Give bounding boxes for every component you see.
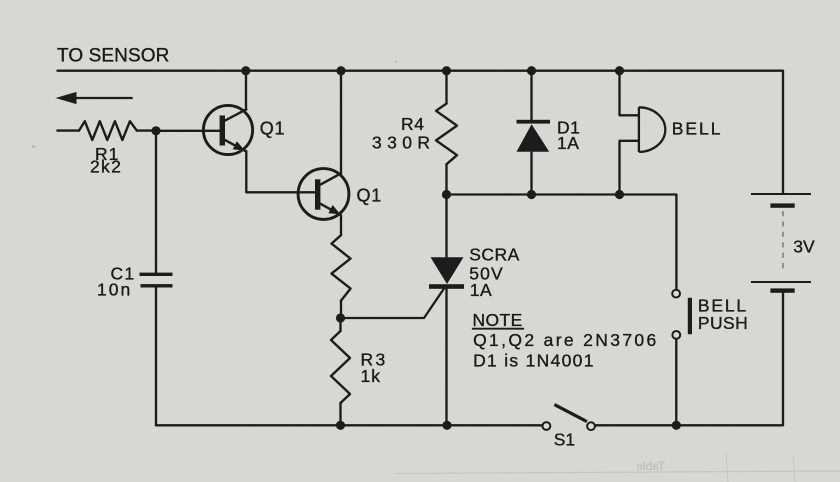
faint print-through artifacts (395, 452, 840, 482)
junction node mid rail D1 (527, 190, 536, 199)
wire Q1 collector (245, 71, 247, 109)
wire node to R3 (339, 318, 341, 331)
svg-text:BELL: BELL (672, 119, 723, 139)
switch S1 left terminal (543, 422, 551, 430)
wire R3 to bottom rail (339, 403, 341, 425)
wire SCR cathode (445, 289, 447, 426)
wire Q1 base (156, 130, 220, 132)
wire R2 to node (340, 301, 342, 318)
wire R1 right lead (137, 129, 156, 131)
svg-text:TO SENSOR: TO SENSOR (57, 45, 169, 66)
wire Q1 emitter to Q2 base (246, 151, 315, 192)
battery dashed link (782, 211, 784, 272)
svg-text:1A: 1A (557, 133, 579, 153)
svg-text:330R: 330R (372, 133, 435, 153)
resistor R1 (79, 121, 137, 140)
junction node top rail Q1 (241, 66, 250, 75)
junction node top rail R4 (442, 66, 451, 75)
junction node mid rail R4 (442, 190, 451, 199)
svg-text:1k: 1k (361, 366, 381, 386)
wire Q2 emitter (340, 215, 342, 235)
wire Q2 collector (340, 71, 342, 173)
svg-text:S1: S1 (554, 430, 575, 450)
wire C1 to bottom rail (155, 288, 157, 426)
svg-text:1A: 1A (470, 280, 492, 300)
bell push lower terminal (672, 331, 680, 339)
svg-text:Table: Table (636, 459, 665, 473)
transistor Q1 (203, 105, 252, 154)
resistor R4 (436, 104, 457, 165)
battery cell 1 plate short (770, 203, 794, 207)
wire mid rail (447, 195, 677, 290)
junction node top rail bell (615, 66, 624, 75)
wire bell upper lead (620, 71, 639, 116)
note underline (472, 328, 524, 330)
wire D1 bottom (530, 152, 532, 195)
resistor R3 (331, 331, 350, 403)
svg-text:Q1,Q2 are 2N3706: Q1,Q2 are 2N3706 (473, 330, 658, 350)
svg-text:R4: R4 (401, 114, 425, 134)
wire bell push to bottom rail (675, 339, 677, 426)
switch S1 lever (554, 405, 587, 422)
battery cell 1 plate long (751, 193, 811, 195)
battery cell 2 plate short (770, 288, 794, 292)
wire bell lower lead (620, 141, 639, 195)
junction node bottom rail bell push (672, 421, 681, 430)
diode D1 (517, 120, 551, 152)
capacitor C1 (140, 273, 173, 288)
junction node mid rail bell (615, 190, 624, 199)
wire R4 top lead (445, 71, 447, 104)
wire R1 left lead (57, 129, 79, 131)
wire bottom rail right (595, 293, 783, 426)
transistor Q2 (298, 169, 349, 220)
wire node to C1 (155, 131, 157, 273)
svg-text:NOTE: NOTE (473, 310, 523, 330)
junction node bottom rail R3 (336, 421, 345, 430)
svg-text:D1 is 1N4001: D1 is 1N4001 (473, 351, 595, 371)
wire D1 top (530, 71, 532, 120)
wire bottom rail left (156, 424, 543, 426)
faint speck (32, 145, 35, 148)
svg-text:Q1: Q1 (260, 118, 286, 138)
svg-text:10n: 10n (97, 280, 132, 300)
junction node top rail D1 (527, 66, 536, 75)
wire top rail (58, 71, 784, 193)
wire R4 bottom lead (445, 164, 447, 194)
wire SCR anode (445, 195, 447, 259)
wire SCR gate (341, 289, 445, 319)
bell (639, 107, 665, 152)
resistor R2 (332, 235, 351, 300)
junction node bottom rail SCR (442, 421, 451, 430)
svg-text:3V: 3V (793, 237, 815, 257)
thyristor SCRA (429, 257, 464, 289)
bell push upper terminal (672, 290, 680, 298)
battery cell 2 plate long (751, 281, 811, 283)
svg-text:PUSH: PUSH (698, 313, 748, 333)
switch S1 right terminal (587, 422, 595, 430)
junction node R1 (151, 126, 160, 135)
svg-text:2k2: 2k2 (90, 157, 122, 177)
bell push button (688, 298, 692, 334)
junction node gate (336, 313, 345, 322)
svg-text:Q1: Q1 (357, 185, 383, 205)
arrow to sensor (56, 92, 133, 104)
svg-text:SCRA: SCRA (469, 245, 520, 265)
junction node top rail Q2 (336, 66, 345, 75)
